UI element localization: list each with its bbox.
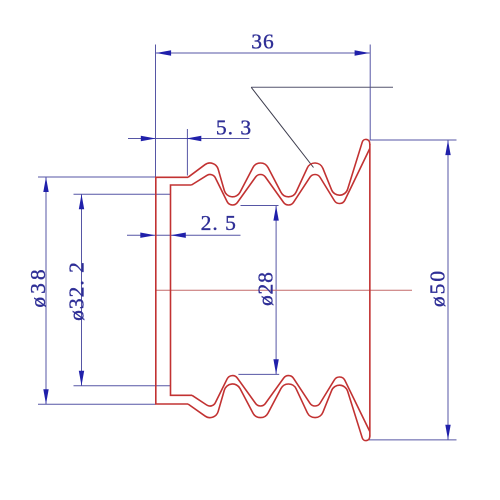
svg-text:2. 5: 2. 5 [201, 211, 237, 235]
svg-text:36: 36 [251, 29, 275, 53]
svg-text:ø50: ø50 [425, 269, 449, 307]
svg-text:ø32. 2: ø32. 2 [64, 261, 88, 321]
svg-text:ø38: ø38 [26, 266, 50, 307]
svg-text:5. 3: 5. 3 [216, 116, 252, 140]
svg-text:ø28: ø28 [253, 271, 277, 306]
